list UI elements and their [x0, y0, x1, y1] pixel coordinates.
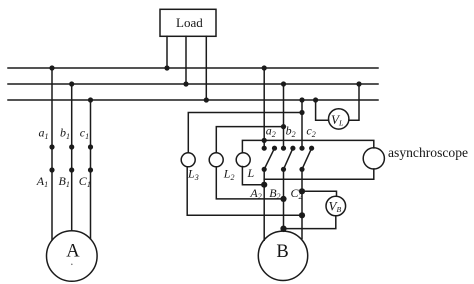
junction dot bus3 / load [204, 97, 209, 102]
wire load phase 1 [166, 36, 168, 68]
junction dot bus1 / a2 [262, 65, 267, 70]
generator B circle [258, 231, 307, 280]
voltmeter VB bottom wire [284, 216, 336, 229]
junction dot C2 / VB top [299, 188, 305, 194]
switch S2 contact c2 upper [299, 146, 304, 151]
dot mark under A [71, 264, 73, 266]
asynchroscope circle [363, 148, 384, 169]
svg-text:B: B [276, 242, 288, 262]
wire bus phase a2 (bus1 to switch) [263, 68, 265, 148]
junction dot bus3 / VL [313, 97, 318, 102]
switch S1 contact B1 lower [69, 167, 74, 172]
lamp L / asynchroscope top wire [242, 140, 373, 152]
wire generator A phase a1 [51, 68, 53, 240]
bus line 3 [8, 99, 378, 101]
wire load phase 3 [205, 36, 207, 100]
lamp L2 circle [209, 153, 223, 167]
lamp L3 bottom wire [187, 167, 302, 216]
junction dot c2 / lamp L3 wire [299, 110, 304, 115]
junction dot a2 / lamp L wire [262, 138, 267, 143]
switch S1 contact b1 upper [69, 144, 74, 149]
bus line 1 [8, 67, 378, 69]
switch S2 contact a2 upper [262, 146, 267, 151]
switch S2 blade tip c [309, 146, 314, 151]
lamp L2 top wire [216, 127, 283, 153]
switch S1 contact c1 upper [88, 144, 93, 149]
switch S2 blade phase c [302, 148, 312, 169]
switch S1 contact A1 lower [49, 167, 54, 172]
wire generator A phase c1 [90, 100, 92, 239]
asynchroscope bottom wire [264, 169, 374, 179]
switch S2 contact C2 lower [299, 167, 304, 172]
wire generator B phase C2 [301, 169, 303, 238]
voltmeter VL right wire [349, 84, 359, 120]
junction dot bus1 / a1 [49, 65, 54, 70]
switch S2 blade phase a [264, 148, 274, 169]
svg-text:A: A [66, 242, 80, 262]
wire load phase 2 [185, 36, 187, 84]
switch S2 contact B2 lower [281, 167, 286, 172]
voltmeter VL left wire [316, 100, 329, 120]
voltmeter VB circle [326, 196, 346, 216]
junction dot bus3 / c1 [88, 97, 93, 102]
junction dot C2 / lamp L3 bottom [299, 212, 305, 218]
lamp L3 top wire [188, 113, 302, 153]
wire generator B phase A2 [263, 169, 265, 240]
switch S2 contact A2 lower [262, 167, 267, 172]
svg-text:Load: Load [176, 15, 203, 30]
voltmeter VL circle [329, 109, 349, 129]
voltmeter VB top wire [302, 191, 337, 196]
junction dot bus2 / b1 [69, 81, 74, 86]
junction dot bus2 / VL [356, 81, 361, 86]
load box [160, 9, 216, 36]
switch S2 contact b2 upper [281, 146, 286, 151]
lamp L3 circle [181, 153, 195, 167]
wire generator B phase B2 [283, 169, 285, 231]
switch S2 blade tip a [272, 146, 277, 151]
wire bus phase c2 (bus3 to switch) [301, 100, 303, 148]
switch S2 blade phase b [284, 148, 293, 169]
junction dot bus2 / b2 [281, 81, 286, 86]
switch S1 contact C1 lower [88, 167, 93, 172]
lamp L2 bottom wire [216, 167, 283, 199]
svg-text:L: L [247, 166, 255, 180]
junction dot bus3 / c2 [299, 97, 304, 102]
wire generator A phase b1 [71, 84, 73, 231]
wire bus phase b2 (bus2 to switch) [283, 84, 285, 148]
junction dot B2 / lamp L2 bottom [280, 196, 286, 202]
generator A circle [47, 231, 98, 282]
junction dot A2 / lamp L bottom [261, 182, 267, 188]
junction dot bus1 / load [164, 65, 169, 70]
junction dot bus2 / load [183, 81, 188, 86]
junction dot B2 / VB bottom [280, 226, 286, 232]
lamp L circle [236, 153, 250, 167]
switch S1 contact a1 upper [49, 144, 54, 149]
switch S2 blade tip b [290, 146, 295, 151]
bus line 2 [8, 83, 378, 85]
svg-text:asynchroscope: asynchroscope [388, 145, 468, 160]
lamp L bottom wire [242, 167, 264, 185]
junction dot b2 / lamp L2 wire [281, 124, 286, 129]
